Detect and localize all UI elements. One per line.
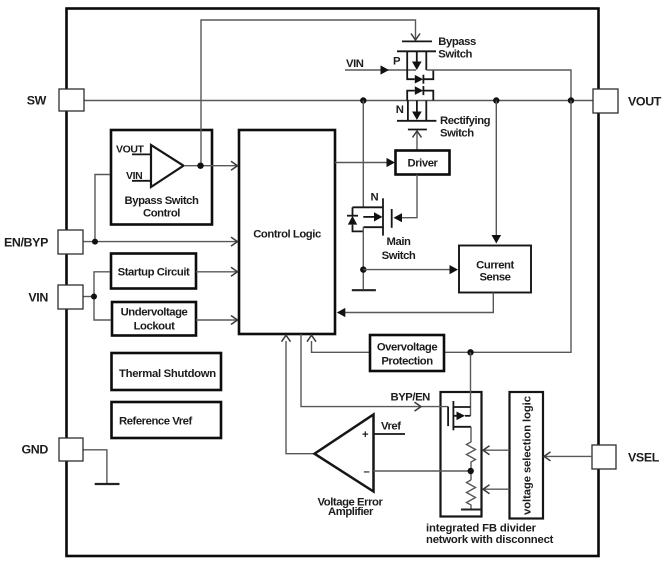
node: OVP / FB divider junction (467, 349, 473, 355)
svg-text:GND: GND (22, 443, 49, 457)
svg-text:Protection: Protection (381, 356, 433, 368)
svg-text:Driver: Driver (408, 158, 439, 170)
diode: rectifying switch body diode (407, 86, 433, 100)
transistor main switch (N-channel MOSFET) (353, 101, 392, 236)
block: Overvoltage Protection (370, 335, 444, 371)
svg-text:BYP/EN: BYP/EN (391, 392, 431, 404)
wire: VIN pin to branch node (83, 296, 94, 298)
svg-text:N: N (396, 104, 404, 116)
transistor bypass switch (P-channel MOSFET) (393, 34, 436, 71)
svg-text:Sense: Sense (479, 272, 510, 284)
op-amp voltage error amplifier (315, 415, 374, 492)
block: integrated FB divider network (441, 392, 482, 517)
wire: FB node to error amplifier inverting input (374, 470, 471, 472)
wire: Driver output to main switch gate (400, 175, 417, 218)
svg-text:Reference Vref: Reference Vref (119, 416, 193, 428)
svg-text:Main: Main (387, 236, 411, 248)
wire: VSEL pin to voltage selection logic (545, 455, 592, 457)
block: Reference Vref (112, 402, 222, 438)
node: main switch source junction (360, 266, 366, 272)
pin VIN (58, 285, 83, 309)
wire: EN/BYP branch up to Bypass Switch Control input (95, 175, 110, 242)
svg-text:Bypass: Bypass (438, 36, 476, 48)
wire: comparator output to Control Logic (184, 165, 237, 167)
svg-text:N: N (371, 192, 379, 204)
pin SW (59, 89, 84, 111)
svg-text:Control Logic: Control Logic (253, 229, 321, 241)
block: Undervoltage Lockout (112, 302, 196, 336)
pin EN/BYP (58, 230, 83, 254)
svg-text:Overvoltage: Overvoltage (377, 342, 438, 354)
node: EN/BYP junction (92, 239, 98, 245)
wire: BYP/EN from Control Logic to FB disconnect gate (301, 334, 448, 407)
diode: bypass switch body diode (407, 70, 433, 84)
arrowheads into Control Logic left edge (231, 161, 238, 170)
svg-text:Switch: Switch (440, 128, 474, 140)
svg-text:Control: Control (143, 208, 180, 220)
block: Thermal Shutdown (112, 353, 222, 390)
svg-text:VIN: VIN (28, 291, 48, 305)
svg-text:Current: Current (476, 260, 514, 272)
wire: VIN feed to bypass switch source (345, 69, 416, 71)
svg-text:Switch: Switch (382, 250, 416, 262)
wire: VIN branch to Startup Circuit (94, 272, 110, 297)
wire: Control Logic to Driver (335, 162, 388, 164)
block: Bypass Switch Control (111, 130, 212, 225)
svg-text:Switch: Switch (438, 49, 472, 61)
svg-text:P: P (393, 56, 401, 68)
wire: Startup Circuit output to Control Logic (196, 271, 237, 273)
pin GND (59, 438, 83, 461)
block: Current Sense (459, 246, 531, 293)
wire: main switch source to Current Sense (363, 269, 450, 271)
wire: VOUT rail down to overvoltage/FB node (444, 101, 571, 353)
wire: OVP output to Control Logic (312, 341, 371, 352)
node: comparator output junction (197, 163, 203, 169)
block: voltage selection logic (510, 392, 544, 519)
wire: SW to VOUT rail (SW node) (84, 100, 593, 102)
ground at main switch (352, 289, 376, 291)
transistor rectifying switch (N-channel MOSFET) (396, 101, 437, 130)
block: Control Logic (239, 130, 335, 334)
ground at FB divider (461, 509, 481, 511)
wire: driver output up to rectifying switch gate (416, 132, 418, 151)
block: Startup Circuit (111, 254, 196, 289)
wire: EN/BYP pin to Control Logic (83, 241, 237, 243)
svg-text:Startup Circuit: Startup Circuit (118, 267, 190, 279)
resistor upper FB divider (467, 427, 476, 480)
wire: Undervoltage Lockout output to Control Logic (196, 319, 237, 321)
wire: bypass gate control from comparator output up to bypass switch gate (201, 20, 416, 166)
resistor lower FB divider (467, 480, 476, 509)
pin VOUT (593, 89, 618, 113)
svg-text:SW: SW (27, 94, 47, 108)
wire: Current Sense output to Control Logic (344, 293, 493, 313)
svg-text:Bypass Switch: Bypass Switch (125, 195, 199, 207)
wire: main switch source to ground (362, 227, 364, 289)
svg-text:Lockout: Lockout (134, 321, 175, 333)
node: rail junction at bypass drain (568, 97, 574, 103)
svg-text:integrated FB divider: integrated FB divider (426, 523, 537, 535)
op-amp comparator U1 in Bypass Switch Control (151, 145, 184, 187)
wire: FB node down into divider (470, 352, 472, 416)
svg-text:Undervoltage: Undervoltage (121, 307, 188, 319)
wire: VIN branch to Undervoltage Lockout (94, 297, 111, 321)
ground symbol at GND pin (95, 483, 120, 485)
wire: VOUT rail down to Current Sense input (495, 101, 497, 237)
svg-text:EN/BYP: EN/BYP (4, 236, 48, 250)
wire: voltage selection to upper divider tap (484, 449, 510, 451)
svg-text:–: – (364, 466, 370, 478)
node: VIN junction (91, 294, 97, 300)
transistor FB disconnect switch (448, 401, 471, 430)
svg-text:Thermal Shutdown: Thermal Shutdown (119, 368, 216, 380)
pin VSEL (592, 445, 616, 469)
svg-text:voltage selection logic: voltage selection logic (522, 396, 534, 515)
svg-text:VOUT: VOUT (628, 95, 662, 109)
diode: main switch body diode (347, 207, 363, 231)
wire: GND pin to ground (83, 450, 107, 483)
wire: error amplifier output to Control Logic (286, 341, 315, 454)
node: rail junction to current sense (493, 97, 499, 103)
svg-text:network with disconnect: network with disconnect (426, 534, 554, 546)
IC boundary border (67, 9, 599, 557)
wire: Vref input to error amplifier (374, 433, 406, 435)
node: FB midpoint (468, 468, 474, 474)
svg-text:VSEL: VSEL (628, 451, 660, 465)
block: Driver (396, 151, 450, 175)
wire: bypass switch drain to VOUT rail (426, 70, 571, 101)
node: rail junction at main switch drain (360, 97, 366, 103)
svg-text:Rectifying: Rectifying (440, 115, 491, 127)
svg-text:Vref: Vref (381, 421, 401, 433)
svg-text:Amplifier: Amplifier (328, 506, 374, 518)
svg-text:+: + (362, 429, 369, 441)
svg-text:VIN: VIN (346, 58, 364, 70)
wire: voltage selection to lower divider tap (484, 488, 510, 490)
